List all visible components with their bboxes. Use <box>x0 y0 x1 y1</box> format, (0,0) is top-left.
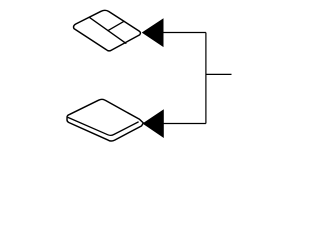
device icon D1 (tilted keyboard/card, top) <box>74 10 141 51</box>
arrowhead A2 (into D2) <box>143 110 163 137</box>
wire: right stub <box>206 73 232 75</box>
arrowhead A1 (into D1) <box>143 19 163 46</box>
wire: vertical bus segment <box>205 33 207 124</box>
wire: bottom horizontal segment <box>163 123 206 125</box>
wire: top horizontal segment <box>163 32 206 34</box>
device icon D2 (tilted slab/plate, bottom) <box>67 99 143 141</box>
